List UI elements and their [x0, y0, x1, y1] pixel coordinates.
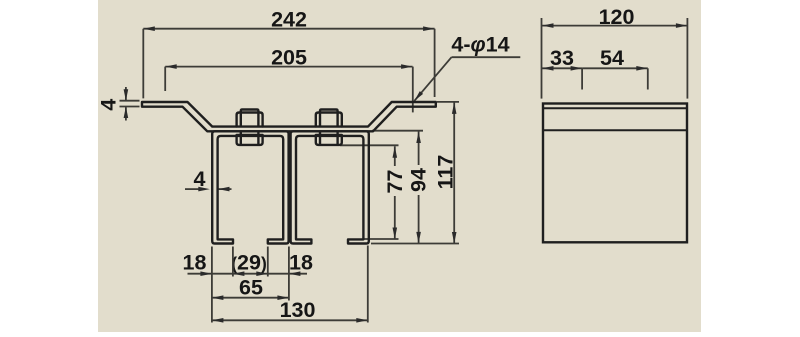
hanger bolt 1: [241, 110, 259, 113]
dimension 54: [582, 46, 648, 90]
dimension 33: [542, 46, 582, 90]
svg-text:242: 242: [271, 8, 307, 32]
svg-text:130: 130: [280, 298, 316, 322]
dimension 94: [372, 131, 431, 244]
svg-text:54: 54: [600, 46, 624, 70]
svg-text:(29): (29): [231, 250, 267, 274]
side view body: [543, 104, 687, 243]
bottom extension lines: [212, 246, 368, 323]
dimension 205: [165, 45, 413, 112]
svg-text:117: 117: [434, 155, 458, 190]
dimension 242: [143, 8, 434, 99]
label 4-phi14 hole callout: [414, 32, 520, 101]
svg-text:18: 18: [289, 250, 313, 274]
svg-text:4: 4: [194, 167, 206, 191]
svg-text:18: 18: [183, 250, 207, 274]
hanger bolt 2: [320, 110, 338, 113]
svg-text:205: 205: [271, 45, 307, 69]
dimension 4 wall thickness: [185, 167, 232, 191]
dimension 65: [212, 276, 289, 301]
dimension 4 plate thickness: [97, 87, 140, 121]
side view plate bottom line: [543, 107, 687, 109]
dimension chain 18 (29) 18: [183, 250, 313, 276]
top mounting plate profile: [142, 102, 436, 131]
left C-channel rail: [212, 131, 288, 243]
dimension 117: [371, 102, 459, 244]
svg-text:94: 94: [407, 168, 431, 192]
svg-text:33: 33: [550, 46, 574, 70]
svg-text:4-φ14: 4-φ14: [451, 32, 509, 56]
dimension 77: [340, 145, 407, 239]
right C-channel rail: [291, 131, 369, 243]
svg-text:4: 4: [97, 99, 121, 111]
dimension 130: [212, 298, 368, 323]
svg-text:120: 120: [599, 5, 635, 29]
side view channel top line: [543, 129, 687, 131]
svg-text:77: 77: [383, 170, 407, 194]
dimension 120: [542, 5, 688, 99]
svg-text:65: 65: [239, 276, 263, 300]
